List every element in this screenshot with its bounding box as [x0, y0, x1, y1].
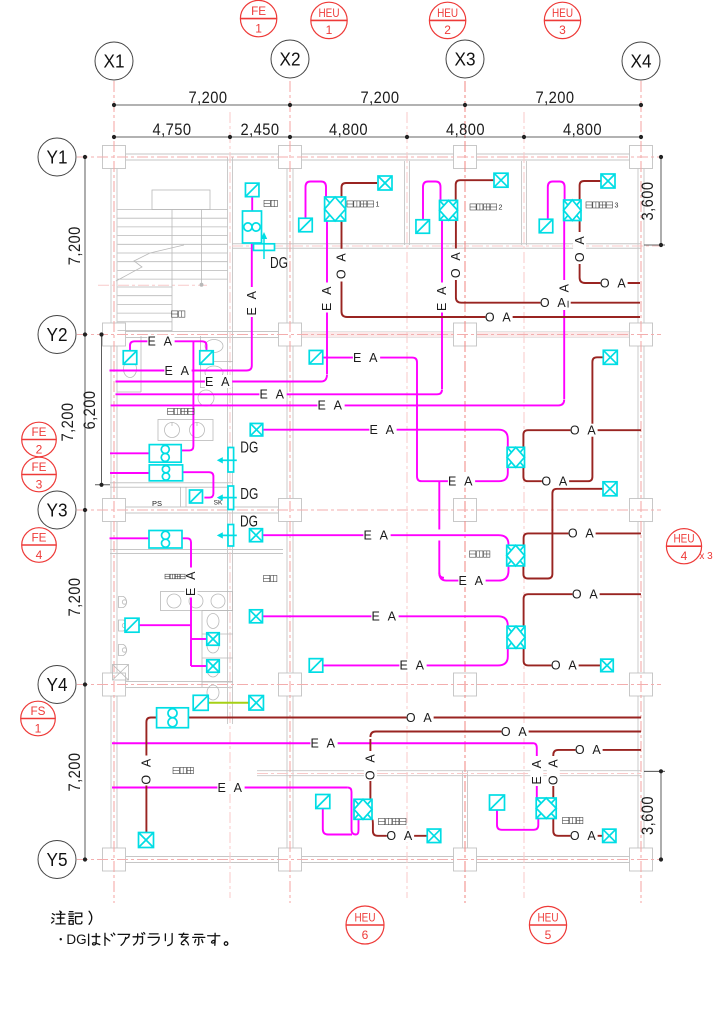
svg-text:HEU: HEU [319, 6, 340, 20]
svg-text:4: 4 [36, 548, 43, 562]
wire OA big meeting room fan top riser to line y=733.5 [370, 732, 641, 800]
column at (465,157) [454, 146, 477, 169]
mens toilet fan [149, 531, 182, 549]
svg-text:HEU: HEU [552, 6, 573, 20]
grid bubble Y5 [38, 841, 76, 879]
wire EA L9: corridor slashed box to fan3 bottom [323, 648, 508, 665]
svg-text:Y3: Y3 [47, 501, 68, 521]
PS/SK room partitions [180, 487, 182, 507]
svg-text:5: 5 [545, 928, 552, 942]
dimension line 7200 row (top first row) [114, 104, 641, 106]
wire EA fanB to SK box [183, 472, 214, 497]
wall x=465 between Oukaigishitsu and Shachoushitsu [462, 771, 464, 860]
wall along Y4 [110, 681, 233, 683]
note line 2: DG ha doagarari wo shimesu [60, 938, 62, 940]
label OA room2 riser [449, 249, 463, 279]
label room small meeting 1 (CJK) [347, 201, 353, 207]
HEU fan president room [536, 798, 556, 819]
big meeting room slashed diffuser [316, 795, 330, 809]
callout FE1 [240, 0, 276, 36]
label president room (CJK) [563, 817, 569, 823]
wire EA L6: corridor X-box to fan1 top [263, 430, 508, 448]
toilet wall y=485 (6200 line) [110, 482, 233, 484]
wire OA fan3 top riser to wall y=594.2 [524, 594, 641, 626]
svg-text:FE: FE [32, 460, 47, 474]
label OA wall line y430 [570, 424, 597, 437]
grid centerline Y5 [77, 859, 661, 861]
wire EA riser below meeting room 1 [326, 221, 328, 374]
svg-text:DG: DG [240, 440, 258, 457]
wire EA big meeting room slashed box drop [323, 809, 352, 835]
column at (641,157) [630, 146, 653, 169]
cleaners sink circle [198, 390, 214, 406]
column at (641,684) [630, 673, 653, 696]
diffuser (slashed) meeting room 2 [416, 220, 430, 234]
svg-text:O A: O A [600, 276, 628, 290]
label EA room2 riser [435, 283, 449, 313]
svg-text:E A: E A [435, 284, 449, 311]
sub centerline x=524 [523, 112, 525, 898]
label EA L1 [147, 335, 174, 348]
corridor X-box diffuser (L6) [250, 423, 263, 436]
svg-text:E A: E A [400, 659, 427, 673]
lounge X-box [249, 696, 264, 711]
mens toilet bowls [207, 614, 219, 629]
svg-text:O A: O A [335, 251, 349, 279]
diffuser (slashed) meeting room 1 [299, 218, 313, 232]
label EA storage riser [245, 287, 259, 317]
wire EA fanA west feed [110, 452, 149, 454]
svg-text:4,750: 4,750 [153, 120, 192, 139]
column at (290,157) [279, 146, 302, 169]
svg-text:Y5: Y5 [47, 850, 68, 870]
svg-text:1: 1 [326, 23, 333, 37]
wire EA branch to stall box 2 [191, 665, 207, 667]
wire EA long line y=743 from west wall [112, 742, 533, 744]
wire EA room1 riser corner into L3 [240, 375, 327, 382]
wire OA fan2 top to wall y=533.5 [524, 533, 641, 545]
label big meeting room (CJK) [379, 818, 385, 824]
callout HEU6 [346, 906, 384, 944]
wire EA L7: corridor X-box to fan2 top [263, 535, 509, 545]
wire EA L3 west part [116, 381, 241, 383]
label OA lounge riser [140, 756, 154, 786]
women toilet bowls [205, 340, 223, 353]
svg-text:O A: O A [551, 659, 579, 673]
column at (114,859) [103, 848, 126, 871]
DG door grille 1 [217, 448, 237, 473]
wire OA president fan bottom to X-box [553, 819, 602, 836]
mens stall partitions [201, 611, 203, 688]
svg-text:3,600: 3,600 [638, 182, 657, 221]
wire EA trunk: corridor grille to HEU fan1 [323, 358, 499, 482]
svg-text:E A: E A [318, 399, 345, 413]
svg-text:DG: DG [66, 932, 86, 947]
callout FE4 [22, 528, 57, 563]
OA X-box big meeting room [427, 829, 441, 843]
room divider wall x=407 [404, 161, 406, 245]
storage diffuser (slashed) [245, 183, 259, 197]
mens sink counter [161, 592, 233, 611]
grid bubble Y3 [38, 491, 76, 529]
svg-text:E A: E A [148, 335, 175, 349]
wire OA lounge fan west riser to X-box [146, 718, 156, 833]
wire EA riser below meeting room 2 [441, 220, 443, 389]
wire OA big meeting room fan bottom to X-box [372, 819, 427, 836]
SK slashed box [190, 490, 203, 503]
svg-text:HEU: HEU [355, 911, 376, 925]
label EA L4 [259, 388, 286, 401]
mens stall box 1 [207, 633, 220, 646]
svg-text:4: 4 [681, 549, 688, 563]
diffuser slashed (women stall) [200, 351, 214, 365]
label OA room1 line [485, 311, 512, 324]
grid centerline Y2 [77, 334, 661, 336]
wire EA inverted-U meeting room 2 [423, 182, 441, 221]
svg-text:O A: O A [140, 756, 154, 784]
wire OA room2: fan to X-box [456, 180, 495, 200]
wire link green between boxes (lounge) [208, 702, 249, 704]
label EA L5 [317, 399, 344, 412]
label OA room3 riser [573, 233, 587, 263]
label OA fan1 bottom line [542, 475, 569, 488]
svg-text:O A: O A [568, 527, 596, 541]
svg-text:3: 3 [36, 477, 43, 491]
wire EA west feed to mens fan [110, 537, 150, 539]
label OA room3 line [600, 277, 627, 290]
svg-text:O A: O A [573, 234, 587, 262]
wire EA mens fan to stall branch riser [182, 538, 191, 666]
svg-text:2: 2 [499, 204, 503, 212]
wall y=551 corridor/toilet [110, 549, 283, 551]
label OA fan3 bottom line [551, 659, 578, 672]
svg-text:O A: O A [570, 423, 598, 437]
grid centerline X1 [113, 81, 115, 903]
svg-text:3,600: 3,600 [638, 796, 657, 835]
corridor X-box diffuser (L7) [250, 529, 263, 542]
grid bubble X4 [622, 42, 660, 80]
wire EA trunk into fan1 bottom [499, 467, 508, 481]
svg-text:E A: E A [218, 781, 245, 795]
svg-text:Y2: Y2 [47, 325, 68, 345]
svg-text:X1: X1 [104, 52, 125, 72]
label EA room1 riser [320, 283, 334, 313]
wire EA L8: corridor X-box to fan3 top [263, 616, 508, 626]
mens wall slashed box [125, 618, 139, 632]
wire EA fanB west feed [110, 472, 149, 474]
grid centerline Y3 [77, 509, 661, 511]
column at (114,510) [103, 499, 126, 522]
extension tick 6200 [95, 484, 110, 486]
column at (641,510) [630, 499, 653, 522]
stair landing rectangle [152, 190, 210, 210]
wire OA fan3 bottom to X-box [524, 648, 601, 665]
lounge slashed box [193, 695, 208, 710]
DG door grille 3 [217, 525, 237, 547]
label EA L8 [371, 610, 398, 623]
grid bubble Y2 [38, 316, 76, 354]
label OA president outlet [570, 829, 597, 842]
svg-text:HEU: HEU [538, 911, 559, 925]
label office (CJK) [470, 551, 476, 557]
svg-text:4,800: 4,800 [563, 120, 602, 139]
stair treads upper [118, 209, 228, 211]
label EA L2 [164, 364, 191, 377]
wall bottom of meeting rooms y=246 [232, 243, 641, 245]
label corridor (CJK) [264, 575, 270, 581]
toilet fan A [149, 445, 181, 463]
HEU fan unit office 2 [507, 545, 525, 566]
wire EA room2 riser corner into L4 [116, 390, 443, 395]
label EA room3 riser [557, 280, 571, 310]
svg-text:FE: FE [251, 4, 266, 18]
svg-text:1: 1 [376, 201, 380, 209]
callout HEU4 [666, 529, 701, 564]
svg-text:PS: PS [152, 499, 162, 508]
diffuser (slashed) meeting room 3 [539, 219, 553, 233]
svg-text:7,200: 7,200 [58, 403, 77, 442]
svg-text:O A: O A [501, 725, 529, 739]
svg-text:O A: O A [406, 711, 434, 725]
centerline of 3600 wall bottom [257, 773, 641, 775]
svg-text:x 3: x 3 [699, 551, 713, 562]
svg-text:SK: SK [214, 500, 223, 507]
svg-text:E A: E A [459, 574, 486, 588]
svg-text:2: 2 [444, 23, 451, 37]
svg-text:O A: O A [540, 296, 568, 310]
wire OA president fan top riser to line y=752.6 [553, 750, 641, 798]
svg-text:X4: X4 [631, 52, 652, 72]
wire OA lounge fan long east line y=717.5 [188, 717, 641, 719]
label OA big meeting outlet [387, 829, 414, 842]
label OA fan2 line [568, 527, 595, 540]
OA X-box president room [603, 829, 616, 842]
column at (465,859) [454, 848, 477, 871]
wire EA drop to president room fan [533, 743, 537, 798]
column at (641,859) [630, 848, 653, 871]
callout HEU5 [529, 906, 566, 943]
svg-text:4,800: 4,800 [446, 120, 485, 139]
wire EA branch to stall box 1 [191, 638, 207, 640]
svg-text:Y1: Y1 [47, 148, 68, 168]
svg-text:7,200: 7,200 [65, 753, 84, 792]
svg-text:DG: DG [240, 486, 258, 503]
accessible toilet bowl [124, 361, 137, 378]
wall along Y5 [110, 856, 645, 858]
svg-text:E A: E A [245, 289, 259, 316]
svg-text:E A: E A [184, 569, 198, 596]
svg-text:E A: E A [448, 474, 475, 488]
svg-text:DG: DG [270, 255, 288, 272]
svg-text:7,200: 7,200 [65, 578, 84, 617]
mens stall box 2 [207, 660, 220, 673]
urinals [119, 597, 127, 608]
svg-text:E A: E A [353, 351, 380, 365]
label OA room2 line [540, 296, 567, 309]
label storage (CJK) [264, 200, 270, 206]
wire EA storage riser down to L2 [110, 244, 252, 371]
women stall partitions [200, 336, 202, 388]
OA intake X-box meeting room 3 [601, 174, 615, 188]
OA X-box ceiling (610,489) [603, 482, 617, 496]
callout FS1 [21, 701, 56, 736]
pink dash in y246 wall [232, 245, 661, 247]
wire EA riser below meeting room 3 [563, 221, 565, 400]
svg-text:3: 3 [615, 202, 619, 210]
svg-text:HEU: HEU [674, 532, 695, 546]
svg-text:3: 3 [559, 23, 566, 37]
diffuser slashed (women accessible) [123, 351, 137, 365]
svg-text:E A: E A [370, 423, 397, 437]
stair treads lower left half [118, 286, 173, 288]
svg-text:1: 1 [255, 21, 262, 35]
grid centerline X4 [640, 81, 642, 903]
accessible stall walls [140, 336, 142, 392]
OA intake X-box meeting room 1 [378, 176, 392, 190]
room divider wall x=524 [521, 161, 523, 245]
label OA lounge long line [406, 711, 433, 724]
wire OA room3: fan to X-box [580, 181, 601, 200]
svg-text:E A: E A [530, 758, 544, 785]
president room slashed diffuser [490, 795, 505, 810]
label EA president riser [530, 756, 544, 786]
wall along X2 [286, 153, 288, 863]
HEU fan unit meeting room 3 [564, 200, 581, 221]
grid centerline Y4 [77, 684, 661, 686]
wire OA fan1 top to wall louver y=430 [523, 430, 641, 447]
svg-text:4,800: 4,800 [329, 120, 368, 139]
HEU fan unit meeting room 1 [325, 197, 346, 221]
svg-text:E A: E A [320, 284, 334, 311]
wall along Y1 [110, 153, 645, 155]
HEU fan unit office 1 [507, 447, 524, 467]
svg-text:FS: FS [31, 704, 46, 718]
left dimension chain line [84, 157, 86, 860]
svg-text:7,200: 7,200 [536, 88, 575, 107]
note line 1: chuuki) [52, 911, 66, 924]
wire OA X-box(610,357) to fan1 bottom line [523, 357, 603, 481]
svg-text:O A: O A [547, 757, 561, 785]
sub centerline x=230 [229, 112, 231, 898]
stair rail second [201, 210, 203, 285]
label OA big meeting riser [364, 751, 378, 781]
dimension line second row [114, 136, 641, 138]
OA X-box lounge outlet [139, 833, 154, 848]
label EA line y788 [217, 781, 244, 794]
stair mid landing centerline [98, 284, 207, 286]
HEU fan unit office 3 [507, 626, 525, 648]
grid bubble X3 [446, 40, 484, 78]
storage sirocco fan [243, 211, 262, 243]
column at (465,510) [454, 499, 477, 522]
callout HEU3 [544, 2, 580, 38]
grid bubble Y1 [38, 138, 76, 176]
svg-text:FE: FE [32, 531, 47, 545]
svg-text:O A: O A [386, 829, 414, 843]
svg-text:2,450: 2,450 [241, 120, 280, 139]
svg-text:E A: E A [311, 736, 338, 750]
label mens toilet (CJK) [165, 574, 170, 579]
grid bubble X2 [271, 40, 309, 78]
svg-text:E A: E A [260, 388, 287, 402]
svg-text:E A: E A [364, 528, 391, 542]
mop sink SK [113, 665, 129, 681]
grid centerline X3 [464, 81, 466, 903]
column at (290,510) [279, 499, 302, 522]
wire EA branch from trunk line down to fan2 bottom [439, 481, 444, 578]
label EA L9 [399, 659, 426, 672]
svg-text:O A: O A [541, 474, 569, 488]
corridor slashed diffuser (L9) [309, 659, 323, 673]
pale beam band along Y2 east [292, 332, 641, 338]
column at (290,684) [279, 673, 302, 696]
svg-text:O A: O A [485, 310, 513, 324]
svg-text:X2: X2 [280, 50, 301, 70]
label EA lounge long line [310, 737, 337, 750]
column at (641,334) [630, 323, 653, 346]
label OA y=731 line [501, 725, 528, 738]
svg-text:X3: X3 [455, 50, 476, 70]
wire OA room1: fan to X-box [342, 183, 378, 197]
label OA president riser [547, 756, 561, 786]
wire EA room3 riser corner into L5 [111, 400, 565, 406]
inner 6200 dimension line [101, 335, 103, 485]
svg-text:HEU: HEU [437, 6, 458, 20]
column at (465,334) [454, 323, 477, 346]
wire OA room2 riser down + east line y=302.7 [456, 220, 640, 303]
column at (114,684) [103, 673, 126, 696]
wall x=230 [227, 157, 229, 724]
svg-text:7,200: 7,200 [189, 88, 228, 107]
svg-text:FE: FE [32, 425, 47, 439]
label stairs (CJK) [172, 311, 178, 317]
svg-text:6: 6 [362, 928, 369, 942]
wire OA room3 riser down + east line y=283 [580, 221, 640, 284]
label OA fan3 line [572, 588, 599, 601]
label OA y=750 line [575, 743, 602, 756]
corridor X-box diffuser (L8) [250, 610, 263, 623]
wire EA storage: diffuser to fan [251, 197, 253, 212]
grid bubble Y4 [38, 666, 76, 704]
OA X-box outlet (607,665) [601, 659, 614, 672]
svg-text:2: 2 [36, 442, 43, 456]
HEU fan unit meeting room 2 [440, 200, 458, 220]
storage DG door grille bar [254, 244, 275, 251]
label EA trunk east [448, 475, 475, 488]
vanity counter women [158, 420, 213, 441]
sub centerline x=407 [406, 112, 408, 898]
label room small meeting 3 (CJK) [586, 202, 592, 208]
svg-text:O A: O A [575, 743, 603, 757]
right 3600 bottom dimension line [660, 771, 662, 859]
svg-text:E A: E A [165, 364, 192, 378]
wire EA long line y=787.5 [112, 787, 348, 789]
svg-text:O A: O A [449, 250, 463, 278]
column at (114,334) [103, 323, 126, 346]
callout HEU1 [311, 2, 347, 38]
column at (465,684) [454, 673, 477, 696]
label OA room1 riser [335, 250, 349, 280]
HEU fan big meeting room [354, 799, 372, 819]
wire OA room1 riser down + east line y=317 [342, 221, 641, 317]
callout FE3 [22, 457, 57, 492]
grid centerline Y1 [77, 156, 661, 158]
wall y=773 (3600 line bottom rooms) [257, 770, 641, 772]
corridor slashed diffuser (trunk) [309, 350, 323, 364]
OA X-box ceiling (610,357) [603, 350, 617, 364]
label EA trunk top [353, 351, 380, 364]
storage DG arrow (up) [261, 232, 267, 259]
